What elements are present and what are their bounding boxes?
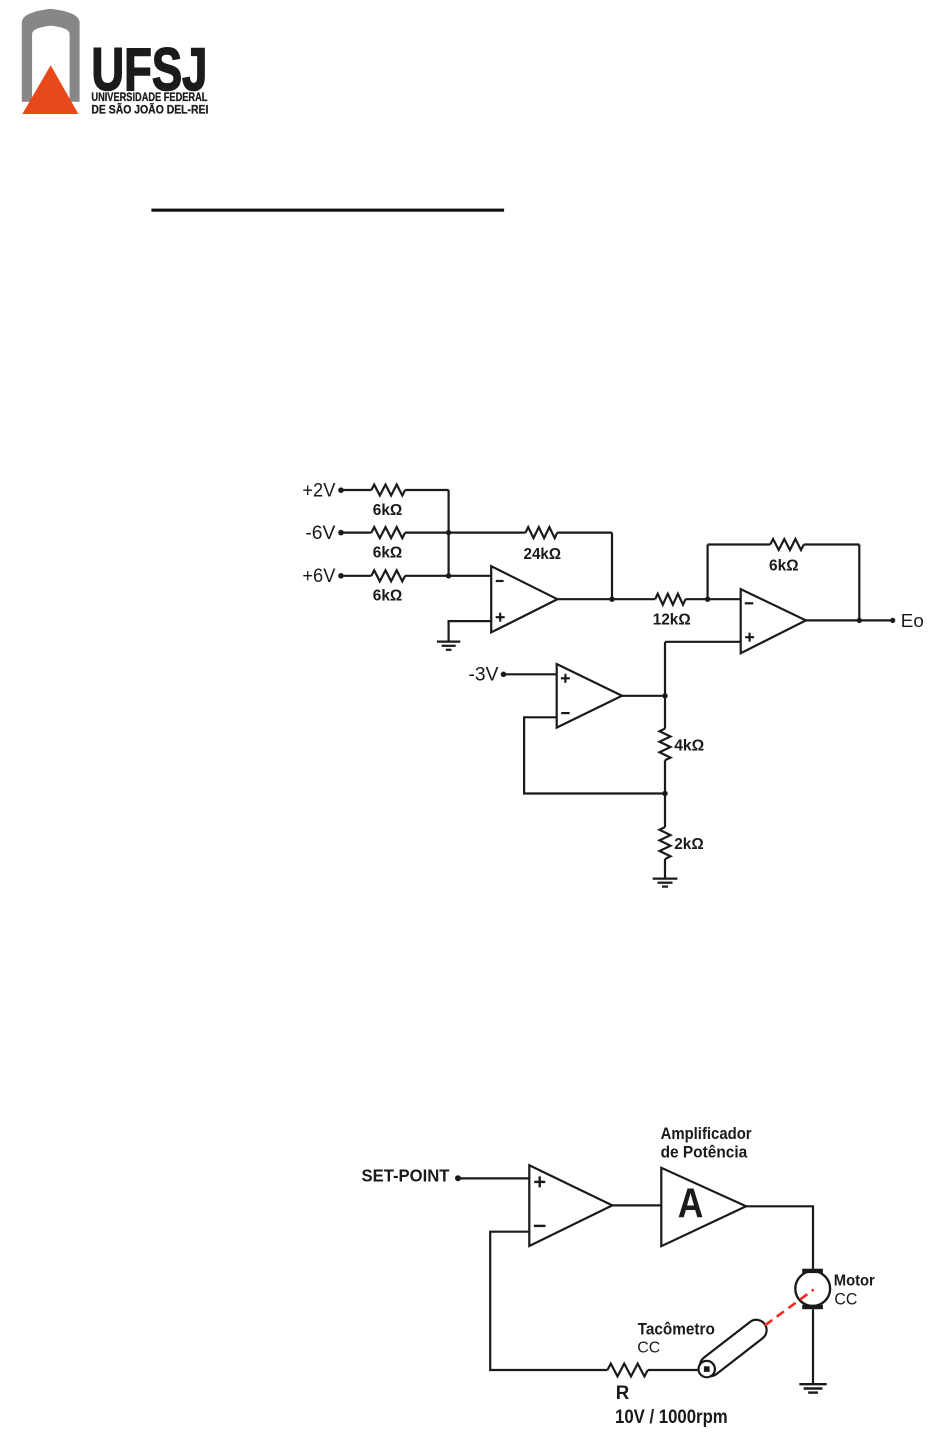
resistor R6 6k feedback zigzag: [770, 539, 804, 550]
resistor R6 value 6kΩ: [769, 557, 799, 574]
op-amp U3 minus pin: [561, 712, 570, 714]
op-amp U1 plus pin: [496, 613, 505, 622]
junction U1 output feedback: [609, 597, 614, 602]
motor M1 bottom brush: [802, 1305, 823, 1309]
motor M1 label CC: [834, 1290, 857, 1309]
op-amp U3: [557, 664, 622, 728]
wire motor to ground: [812, 1309, 814, 1383]
svg-text:-3V: -3V: [469, 664, 499, 686]
wire U4 inverting feedback loop: [490, 1232, 607, 1370]
tachometer T1 label CC: [637, 1339, 660, 1356]
resistor R8 value 2kΩ: [674, 836, 704, 853]
resistor R5 12k zigzag: [655, 594, 685, 605]
wire R2 to 24k: [405, 531, 525, 533]
amplifier A1 gain letter: [678, 1180, 704, 1227]
wire R3 to op-amp U1 inverting input: [405, 575, 491, 577]
svg-text:4kΩ: 4kΩ: [674, 737, 704, 754]
svg-text:de Potência: de Potência: [661, 1143, 748, 1161]
resistor R1 6k zigzag: [371, 485, 405, 496]
wire U2 noninverting left: [665, 641, 741, 643]
node +6V label: [302, 565, 335, 587]
resistor R4 24k zigzag: [526, 527, 558, 538]
svg-text:2kΩ: 2kΩ: [674, 836, 704, 853]
resistor R2 6k zigzag: [371, 527, 405, 538]
node -3V terminal: [501, 672, 507, 678]
amplifier A1 label line 1: [661, 1125, 753, 1143]
node Eo terminal: [890, 618, 895, 623]
amplifier A1: [661, 1168, 746, 1246]
wire U4 output to amplifier: [612, 1204, 661, 1206]
wire U1 noninverting to ground: [449, 621, 492, 641]
op-amp U4 plus pin: [534, 1176, 545, 1187]
op-amp U4 minus pin: [534, 1225, 546, 1227]
resistor R3 6k zigzag: [371, 570, 405, 581]
svg-text:Motor: Motor: [834, 1272, 875, 1289]
wire U3 feedback: [524, 717, 665, 793]
UFSJ logo subtitle line 1: [91, 90, 207, 104]
wire U2 output: [806, 619, 892, 621]
svg-text:R: R: [616, 1382, 630, 1404]
resistor R zigzag: [607, 1364, 647, 1377]
junction U2 inverting node: [705, 597, 710, 602]
wire -3V to op-amp U3: [504, 673, 557, 675]
svg-text:6kΩ: 6kΩ: [769, 557, 799, 574]
svg-text:-6V: -6V: [305, 522, 335, 544]
resistor R1 value 6kΩ: [373, 502, 403, 519]
svg-text:CC: CC: [637, 1339, 660, 1356]
svg-text:CC: CC: [834, 1290, 857, 1309]
wire U1 output: [557, 598, 655, 600]
junction divider tap: [662, 791, 667, 796]
svg-text:A: A: [678, 1180, 704, 1227]
ground G2: [653, 879, 678, 887]
resistor R5 value 12kΩ: [653, 612, 691, 629]
ground G3: [799, 1384, 826, 1392]
junction bus row2: [446, 530, 451, 535]
junction U2 output feedback: [857, 618, 862, 623]
svg-text:Tacômetro: Tacômetro: [638, 1320, 715, 1339]
wire R1 to bus: [405, 489, 449, 491]
wire R to tachometer: [648, 1369, 700, 1371]
svg-text:Eo: Eo: [901, 610, 924, 631]
motor M1 top brush: [802, 1269, 823, 1273]
resistor R7 4k zigzag: [660, 729, 671, 761]
node -6V label: [305, 522, 335, 544]
junction U3 output node: [662, 693, 667, 698]
resistor R designator: [616, 1382, 630, 1404]
node +2V terminal: [338, 487, 344, 493]
wire summing bus vertical: [448, 490, 450, 576]
wire U2 feedback up leg: [706, 545, 708, 600]
wire 12k to op-amp U2 inverting input: [686, 598, 741, 600]
svg-text:DE SÃO JOÃO DEL-REI: DE SÃO JOÃO DEL-REI: [91, 102, 208, 117]
resistor R3 value 6kΩ: [373, 588, 403, 605]
svg-text:24kΩ: 24kΩ: [524, 546, 562, 563]
wire U3 output: [622, 695, 665, 697]
wire SET-POINT to op-amp U4: [458, 1177, 530, 1179]
resistor R2 value 6kΩ: [373, 544, 403, 561]
node +6V terminal: [338, 573, 344, 579]
svg-text:6kΩ: 6kΩ: [373, 544, 403, 561]
node -3V label: [469, 664, 499, 686]
wire amplifier to motor: [746, 1206, 813, 1268]
wire +2V to R1: [342, 489, 371, 491]
wire U2 feedback top right: [804, 543, 860, 545]
op-amp U2 minus pin: [745, 602, 754, 604]
UFSJ logo triangle: [22, 65, 78, 114]
op-amp U1: [491, 566, 557, 632]
node SET-POINT label: [362, 1166, 450, 1186]
title rule: [151, 209, 504, 212]
op-amp U2 plus pin: [745, 633, 754, 642]
resistor R4 value 24kΩ: [524, 546, 562, 563]
wire 4k to 2k: [664, 760, 666, 827]
wire 24k to feedback corner: [557, 531, 612, 533]
amplifier A1 label line 2: [661, 1143, 748, 1161]
wire U2 noninverting down leg: [664, 642, 666, 729]
junction bus row3: [446, 573, 451, 578]
tachometer T1 label: [638, 1320, 715, 1339]
node -6V terminal: [338, 530, 344, 536]
UFSJ logo subtitle line 2: [91, 102, 208, 117]
svg-text:Amplificador: Amplificador: [661, 1125, 753, 1143]
wire +6V to R3: [342, 575, 371, 577]
wire feedback down leg: [611, 533, 613, 600]
wire -6V to R2: [342, 531, 371, 533]
tachometer T1 body: [696, 1316, 771, 1381]
tachometer T1 shaft end: [699, 1361, 715, 1377]
resistor R7 value 4kΩ: [674, 737, 704, 754]
node +2V label: [302, 480, 335, 502]
node Eo label: [901, 610, 924, 631]
motor M1 body: [795, 1271, 830, 1306]
svg-text:SET-POINT: SET-POINT: [362, 1166, 450, 1186]
svg-text:10V / 1000rpm: 10V / 1000rpm: [615, 1407, 728, 1428]
node SET-POINT terminal: [455, 1175, 461, 1181]
svg-text:+6V: +6V: [302, 565, 335, 587]
svg-text:6kΩ: 6kΩ: [373, 588, 403, 605]
ground G1: [437, 642, 460, 650]
motor M1 label: [834, 1272, 875, 1289]
svg-text:12kΩ: 12kΩ: [653, 612, 691, 629]
resistor R value 10V / 1000rpm: [615, 1407, 728, 1428]
op-amp U4: [529, 1165, 612, 1246]
UFSJ logo text: [91, 36, 207, 103]
op-amp U1 minus pin: [496, 580, 504, 582]
op-amp U3 plus pin: [561, 674, 570, 683]
UFSJ logo arch: [22, 9, 80, 102]
coupling dashed link: [765, 1290, 814, 1326]
svg-text:+2V: +2V: [302, 480, 335, 502]
wire U2 feedback top left: [708, 543, 771, 545]
wire U2 feedback down to output: [858, 545, 860, 621]
op-amp U2: [741, 589, 806, 653]
resistor R8 2k zigzag: [660, 827, 671, 859]
svg-text:6kΩ: 6kΩ: [373, 502, 403, 519]
wire 2k to ground: [664, 859, 666, 878]
